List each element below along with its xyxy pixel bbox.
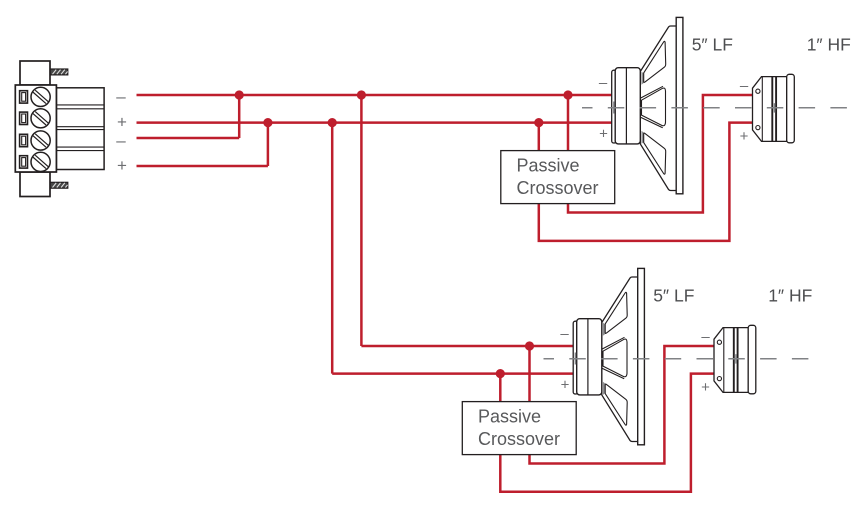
HF tweeter 1 (top) xyxy=(753,74,795,143)
connector screw 4 xyxy=(31,152,50,171)
junction dot drop + xyxy=(328,118,337,127)
svg-text:+: + xyxy=(701,379,710,396)
connector clamp window 2 xyxy=(20,112,28,124)
wire input - row 3 xyxy=(137,95,240,138)
connector screw 1 xyxy=(31,87,50,106)
connector polarity labels xyxy=(116,87,127,175)
svg-text:Crossover: Crossover xyxy=(478,429,560,449)
wire crossover2 output to HF2 + xyxy=(500,374,714,492)
connector clamp window 4 xyxy=(20,156,28,168)
svg-text:1″ HF: 1″ HF xyxy=(807,34,851,54)
passive crossover box 1 xyxy=(501,151,615,204)
svg-text:–: – xyxy=(701,329,710,346)
svg-text:Crossover: Crossover xyxy=(517,178,599,198)
svg-text:+: + xyxy=(740,128,749,145)
junction dot row3 to row1 xyxy=(235,90,244,99)
passive crossover box 2 xyxy=(462,402,576,455)
junction dot crossover1 - xyxy=(563,90,572,99)
axis centerline bottom xyxy=(544,353,814,365)
axis centerline top xyxy=(582,102,852,114)
svg-text:5″ LF: 5″ LF xyxy=(692,34,733,54)
terminal block connector xyxy=(15,61,104,197)
connector socket body xyxy=(56,88,104,170)
LF woofer 1 (top) xyxy=(612,17,683,193)
svg-text:–: – xyxy=(560,326,569,343)
wire bottom bus + xyxy=(332,372,573,375)
HF tweeter 2 (bottom) xyxy=(714,325,756,394)
connector top flange xyxy=(20,61,50,85)
connector top screw shank xyxy=(50,69,68,75)
svg-text:+: + xyxy=(117,156,127,175)
wire input + row 4 xyxy=(137,123,268,166)
LF woofer 2 (bottom) xyxy=(573,268,644,444)
junction dot crossover1 + xyxy=(534,118,543,127)
wire input + row 2 xyxy=(137,121,612,124)
junction dot drop - xyxy=(357,90,366,99)
speaker terminal labels bottom xyxy=(560,326,710,397)
svg-text:Passive: Passive xyxy=(478,407,541,427)
connector clamp window 1 xyxy=(20,91,28,103)
junction dot crossover2 + xyxy=(496,369,505,378)
svg-text:1″ HF: 1″ HF xyxy=(768,285,812,305)
svg-text:5″ LF: 5″ LF xyxy=(653,285,694,305)
wire drop - to bottom system xyxy=(360,95,363,346)
junction dot row4 to row2 xyxy=(263,118,272,127)
connector bottom flange xyxy=(20,172,50,197)
wire crossover1 input + xyxy=(538,123,541,152)
wire bottom bus - xyxy=(361,345,573,348)
wire crossover1 output to HF1 - xyxy=(568,95,753,213)
wire crossover2 output to HF2 - xyxy=(530,346,715,464)
svg-text:+: + xyxy=(599,125,608,142)
wire input - row 1 xyxy=(137,94,612,97)
svg-text:–: – xyxy=(599,75,608,92)
connector bottom screw shank xyxy=(50,182,68,188)
connector screw 3 xyxy=(31,131,50,150)
svg-text:+: + xyxy=(117,113,127,132)
svg-text:–: – xyxy=(116,131,126,150)
wire crossover2 input + xyxy=(499,374,502,403)
svg-text:–: – xyxy=(116,87,126,106)
connector main body xyxy=(15,85,56,172)
connector clamp window 3 xyxy=(20,134,28,146)
connector socket divider lines xyxy=(56,105,104,151)
wire crossover2 input - xyxy=(528,346,531,403)
speaker terminal labels top xyxy=(599,75,749,146)
wire crossover1 input - xyxy=(567,95,570,152)
connector screw 2 xyxy=(31,109,50,128)
svg-text:+: + xyxy=(561,376,570,393)
svg-text:Passive: Passive xyxy=(517,156,580,176)
svg-text:–: – xyxy=(740,78,749,95)
wire drop + to bottom system xyxy=(331,123,334,374)
junction dot crossover2 - xyxy=(525,341,534,350)
wire crossover1 output to HF1 + xyxy=(539,123,753,241)
